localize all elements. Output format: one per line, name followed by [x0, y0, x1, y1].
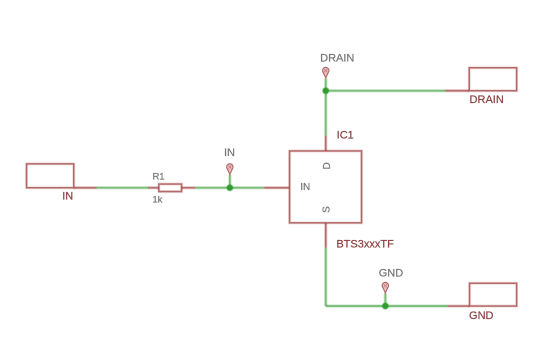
svg-text:BTS3xxxTF: BTS3xxxTF: [336, 239, 394, 251]
svg-text:D: D: [322, 162, 333, 169]
svg-text:R1: R1: [152, 171, 164, 182]
svg-text:S: S: [321, 206, 332, 213]
svg-text:DRAIN: DRAIN: [470, 94, 504, 106]
svg-text:GND: GND: [379, 267, 404, 279]
svg-text:IN: IN: [300, 182, 310, 193]
svg-text:DRAIN: DRAIN: [320, 52, 354, 64]
svg-text:IC1: IC1: [337, 129, 354, 141]
svg-text:1k: 1k: [152, 195, 162, 206]
svg-text:IN: IN: [224, 147, 235, 159]
svg-text:GND: GND: [469, 310, 494, 322]
svg-text:IN: IN: [62, 190, 73, 202]
